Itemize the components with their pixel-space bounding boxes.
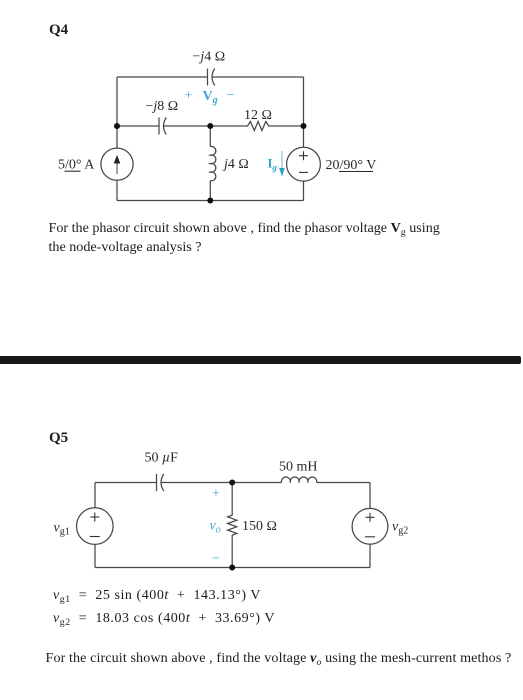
wire middle rail segment C	[271, 125, 304, 127]
node dot left-middle	[114, 123, 120, 129]
wire middle branch lower	[231, 537, 233, 568]
svg-text:vg2: vg2	[392, 520, 408, 537]
svg-text:50 mH: 50 mH	[279, 460, 318, 475]
voltage source V1 plus sign	[299, 151, 308, 172]
capacitor C3 50uF right curved plate	[161, 474, 164, 491]
svg-text:−: −	[227, 88, 235, 103]
wire top-right segment	[212, 76, 304, 78]
wire right rail lower	[369, 544, 371, 567]
wire top-left segment	[117, 76, 208, 78]
wire top segment left	[95, 482, 157, 484]
voltage source Vg1 circle	[77, 508, 114, 545]
node dot center-middle	[207, 123, 213, 129]
question text Q4	[49, 219, 499, 257]
svg-text:+: +	[212, 487, 220, 502]
voltage source Vg2 plus sign	[366, 516, 375, 518]
voltage source Vg1 plus sign	[90, 513, 375, 537]
current source I1 circle	[101, 148, 133, 180]
wire left rail lower	[94, 545, 96, 568]
wire middle branch lower	[209, 181, 211, 201]
svg-text:−j8 Ω: −j8 Ω	[146, 99, 179, 114]
current source I1 arrow	[114, 155, 121, 174]
svg-text:vo: vo	[210, 519, 221, 536]
inductor L1 j4 ohm	[210, 146, 216, 180]
wire left rail upper	[116, 77, 118, 148]
capacitor C1 -j4 ohm right curved plate	[212, 69, 215, 86]
resistor R1 12 ohm	[246, 122, 271, 131]
wire left rail upper	[94, 483, 96, 509]
heading Q5	[49, 430, 68, 447]
heading Q4	[49, 22, 68, 39]
wire top segment middle	[161, 482, 282, 484]
capacitor C3 50uF left plate	[156, 474, 158, 491]
svg-text:−: −	[212, 552, 220, 567]
voltage source Vg2 minus sign	[365, 536, 375, 538]
resistor R2 150 ohm	[228, 514, 237, 537]
wire middle branch upper	[231, 483, 233, 514]
wire bottom rail	[117, 200, 304, 202]
svg-text:150 Ω: 150 Ω	[242, 519, 277, 534]
node dot bottom-middle	[229, 565, 235, 571]
voltage source V1 minus sign	[299, 171, 308, 173]
capacitor C1 -j4 ohm left plate	[207, 69, 209, 86]
capacitor C2 -j8 ohm left plate	[158, 118, 160, 135]
node dot top-middle	[229, 480, 235, 486]
underline for angle notation 20/90 V	[339, 171, 373, 173]
wire left rail lower	[116, 180, 118, 200]
wire right rail upper	[369, 483, 371, 509]
node dot bottom-center	[207, 198, 213, 204]
svg-text:5/0° A: 5/0° A	[58, 158, 95, 173]
svg-text:−j4 Ω: −j4 Ω	[193, 50, 226, 65]
equation vg1	[53, 588, 261, 604]
wire right rail lower	[303, 181, 305, 200]
wire middle rail segment B	[163, 125, 245, 127]
question text Q5	[46, 650, 512, 667]
node dot right-middle	[301, 123, 307, 129]
svg-text:Ig: Ig	[268, 157, 278, 173]
wire top segment right	[317, 482, 370, 484]
arrow Ig downward	[279, 151, 285, 177]
equation vg2	[53, 611, 275, 627]
wire right rail upper	[303, 77, 305, 147]
svg-text:j4 Ω: j4 Ω	[222, 157, 249, 172]
svg-text:vg1: vg1	[54, 521, 70, 538]
underline for angle notation 5/0	[65, 170, 81, 172]
svg-text:+: +	[185, 89, 193, 104]
svg-text:50 µF: 50 µF	[145, 451, 179, 466]
voltage source Vg1 minus sign	[90, 536, 100, 538]
svg-text:Vg: Vg	[203, 89, 218, 106]
wire middle branch upper	[209, 126, 211, 147]
svg-text:12 Ω: 12 Ω	[244, 108, 272, 123]
wire middle rail segment A	[117, 125, 159, 127]
svg-text:20/90° V: 20/90° V	[326, 158, 377, 173]
capacitor C2 -j8 ohm right curved plate	[164, 118, 167, 135]
inductor L2 50mH	[281, 477, 316, 482]
voltage source V1 circle	[287, 147, 321, 181]
divider bar	[0, 356, 521, 365]
voltage source Vg2 circle	[352, 508, 388, 544]
wire bottom rail	[95, 567, 370, 569]
